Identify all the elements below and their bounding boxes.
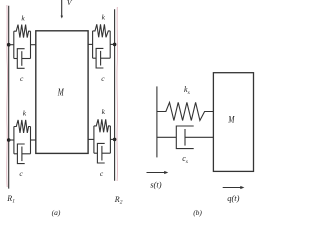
- node dot on R2 top: [113, 43, 117, 47]
- frame left bar (bottom-right assembly): [93, 126, 95, 153]
- frame left bar (top-right assembly): [92, 31, 94, 58]
- input wall bar (part b): [156, 86, 158, 157]
- rail R1: [8, 6, 10, 189]
- svg-text:M: M: [227, 115, 235, 125]
- svg-text:R1: R1: [6, 194, 15, 205]
- svg-text:q(t): q(t): [227, 193, 239, 203]
- svg-text:c: c: [101, 74, 105, 83]
- mass M (part b): [213, 73, 253, 172]
- svg-text:k: k: [102, 12, 106, 21]
- arrow s(t): [147, 171, 169, 174]
- wire top-left assembly to mass: [31, 44, 36, 46]
- frame left bar (bottom-left assembly): [13, 127, 15, 154]
- frame left bar (top-left assembly): [13, 31, 15, 58]
- wire mass to bottom-right assembly: [88, 138, 94, 140]
- svg-text:c: c: [20, 74, 24, 83]
- wire bottom-left assembly to mass: [31, 139, 36, 141]
- spring k (bottom-left): [14, 120, 31, 133]
- node dot on R2 bottom: [113, 138, 117, 142]
- svg-text:M: M: [57, 87, 64, 98]
- spring k (top-right): [93, 24, 111, 37]
- node dot on R1 top: [7, 43, 11, 47]
- node dot on R1 bottom: [7, 138, 11, 142]
- svg-text:c: c: [100, 169, 104, 178]
- svg-text:c: c: [19, 169, 23, 178]
- svg-text:k: k: [21, 14, 25, 23]
- svg-text:(b): (b): [193, 208, 202, 217]
- damper c (top-right): [93, 48, 111, 68]
- spring k (top-left): [14, 25, 31, 38]
- wire top-right assembly to R2: [110, 43, 114, 45]
- frame right bar (top-left assembly): [30, 31, 32, 58]
- rail R1 red guide curve: [6, 5, 9, 187]
- wire bottom-right assembly to R2: [110, 138, 114, 140]
- rail R2 red guide curve: [116, 7, 119, 181]
- frame right bar (bottom-left assembly): [30, 127, 32, 154]
- damper cs (part b): [157, 126, 214, 149]
- svg-text:V: V: [67, 0, 73, 7]
- svg-text:k: k: [23, 108, 27, 117]
- spring ks (part b): [157, 102, 214, 120]
- damper c (bottom-right): [94, 143, 111, 163]
- svg-text:(a): (a): [52, 208, 61, 217]
- damper c (bottom-left): [14, 144, 31, 164]
- spring k (bottom-right): [94, 119, 111, 132]
- wire R1 to bottom-left assembly: [9, 139, 14, 141]
- frame right bar (bottom-right assembly): [109, 126, 111, 153]
- wire mass to top-right assembly: [88, 43, 93, 45]
- svg-text:cs: cs: [182, 154, 188, 165]
- wire R1 to top-left assembly: [9, 44, 14, 46]
- svg-text:ks: ks: [184, 85, 190, 96]
- svg-text:R2: R2: [114, 195, 123, 206]
- svg-text:s(t): s(t): [150, 179, 162, 189]
- mass M (part a): [36, 31, 88, 154]
- svg-text:k: k: [102, 107, 106, 116]
- damper c (top-left): [14, 49, 31, 69]
- frame right bar (top-right assembly): [109, 31, 111, 58]
- arrow q(t): [223, 186, 245, 189]
- rail R2: [114, 9, 116, 181]
- arrow V: [61, 0, 64, 19]
